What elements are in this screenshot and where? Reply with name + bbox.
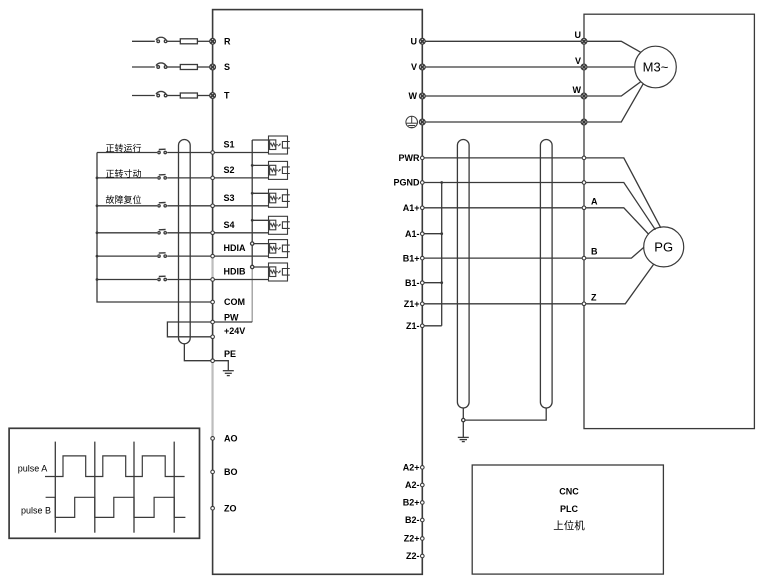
svg-text:Z2-: Z2- [406, 551, 420, 561]
svg-text:上位机: 上位机 [553, 519, 585, 532]
terminal PE motor [581, 119, 587, 125]
node opto supply bus [251, 140, 253, 267]
svg-text:U: U [411, 37, 418, 47]
svg-text:W: W [573, 85, 582, 95]
wire PGND to encoder [584, 183, 655, 230]
shielded cable capsule 1 [457, 140, 469, 409]
wire A to encoder [584, 208, 648, 234]
terminal B1+ [421, 256, 425, 260]
wire Z1+ inverter-encoder [422, 303, 584, 305]
wire opto bus to PW (grey) [251, 267, 253, 322]
wire S3 switch-terminal [167, 205, 212, 207]
PE symbol at inverter output [406, 116, 418, 128]
junction opto bus HDIB [251, 265, 254, 268]
junction bus-HDIB [96, 278, 99, 281]
wire pulse B waveform [46, 497, 186, 517]
CNC host box [472, 465, 663, 574]
ground PE [223, 370, 234, 372]
junction tie PGND [440, 181, 443, 184]
pulse waveform box [9, 428, 199, 538]
terminal W [419, 93, 425, 99]
optocoupler HDIB [269, 263, 290, 281]
svg-text:S: S [224, 62, 230, 72]
wire S breaker-fuse [167, 66, 180, 68]
wire S2 switch-terminal [167, 177, 212, 179]
terminal ZO [211, 506, 215, 510]
svg-text:B1+: B1+ [403, 253, 420, 263]
svg-text:pulse A: pulse A [18, 463, 48, 473]
svg-text:正转寸动: 正转寸动 [106, 168, 142, 179]
wire T breaker-fuse [167, 95, 180, 97]
wire T fuse-terminal [197, 95, 212, 97]
svg-text:B1-: B1- [405, 278, 420, 288]
wire S2 bus-switch [97, 177, 157, 179]
svg-text:B2+: B2+ [403, 498, 420, 508]
svg-text:A: A [591, 196, 598, 206]
wire S1 into opto [213, 152, 269, 154]
fuse R [180, 39, 197, 44]
terminal PGND encoder [582, 181, 586, 185]
wire B to encoder [584, 247, 644, 258]
junction opto bus S2 [251, 164, 254, 167]
junction opto bus S3 [251, 192, 254, 195]
svg-text:BO: BO [224, 467, 238, 477]
terminal HDIA [211, 254, 215, 258]
wire opto HDIA anode feed [252, 243, 268, 245]
svg-text:HDIA: HDIA [224, 243, 246, 253]
svg-text:+24V: +24V [224, 326, 245, 336]
svg-text:S1: S1 [224, 140, 235, 150]
wire Z to encoder [584, 265, 654, 304]
terminal A2+ [421, 466, 425, 470]
svg-text:B2-: B2- [405, 515, 420, 525]
shielded cable capsule 2 [540, 140, 552, 408]
node pulse grid 4 [173, 442, 175, 533]
svg-text:W: W [409, 91, 418, 101]
switch S1 contact [158, 151, 160, 153]
svg-text:AO: AO [224, 434, 238, 444]
wire A1- stub [422, 233, 441, 235]
wire S3 bus-switch [97, 205, 157, 207]
svg-text:PW: PW [224, 313, 239, 323]
shielded cable left capsule [179, 140, 191, 344]
wire opto S1 anode feed [252, 139, 268, 141]
optocoupler S1 [269, 136, 290, 154]
terminal B1- [421, 281, 425, 285]
wire V to motor [584, 66, 635, 68]
terminal V [419, 64, 425, 70]
svg-text:故障复位: 故障复位 [106, 194, 142, 205]
breaker T [157, 94, 160, 97]
wire capsule2 shield to ground [463, 408, 546, 420]
wire W to motor [584, 82, 641, 96]
terminal B2- [421, 518, 425, 522]
svg-text:S2: S2 [224, 165, 235, 175]
svg-text:T: T [224, 91, 230, 101]
encoder PG [644, 227, 684, 267]
svg-text:PGND: PGND [393, 178, 420, 188]
svg-text:A1-: A1- [405, 229, 420, 239]
wire opto HDIB anode feed [252, 266, 268, 268]
terminal B1+ encoder [582, 256, 586, 260]
terminal +24V [211, 335, 215, 339]
terminal AO [211, 437, 215, 441]
wire S1 switch-terminal [167, 152, 212, 154]
switch HDIA contact [158, 255, 160, 257]
svg-text:V: V [575, 56, 581, 66]
terminal BO [211, 470, 215, 474]
svg-text:PG: PG [654, 239, 673, 254]
terminal S2 [211, 176, 215, 180]
optocoupler S2 [269, 161, 290, 179]
optocoupler HDIA [269, 240, 290, 258]
switch S2 contact [158, 177, 160, 179]
motor M3~ [635, 46, 677, 88]
svg-text:Z: Z [591, 292, 597, 302]
terminal T [210, 93, 216, 99]
svg-text:B: B [591, 247, 598, 257]
svg-text:COM: COM [224, 297, 245, 307]
terminal A2- [421, 483, 425, 487]
svg-text:A2+: A2+ [403, 463, 420, 473]
terminal S3 [211, 204, 215, 208]
wire U to motor [584, 41, 641, 52]
wire HDIB bus-switch [97, 279, 157, 281]
wire B1- stub [422, 282, 441, 284]
terminal S [210, 64, 216, 70]
wire PE to motor [584, 84, 643, 122]
svg-text:A2-: A2- [405, 480, 420, 490]
wire T input lead [132, 95, 155, 97]
wire PWR to encoder [584, 158, 661, 228]
junction bus-S3 [96, 204, 99, 207]
wire S1 bus-switch [97, 152, 157, 154]
wire S4 bus-switch [97, 232, 157, 234]
terminal S1 [211, 151, 215, 155]
svg-text:Z1+: Z1+ [404, 299, 420, 309]
wire S4 switch-terminal [167, 232, 212, 234]
svg-text:V: V [411, 62, 417, 72]
terminal A1- [421, 232, 425, 236]
terminal PWR encoder [582, 156, 586, 160]
terminal HDIB [211, 278, 215, 282]
terminal R [210, 38, 216, 44]
terminal V motor [581, 64, 587, 70]
terminal PE output [419, 119, 425, 125]
wire HDIA switch-terminal [167, 255, 212, 257]
grey left-edge segment PE-AO [212, 363, 214, 436]
switch S4 contact [158, 232, 160, 234]
svg-text:CNC: CNC [559, 487, 579, 497]
terminal Z1+ [421, 302, 425, 306]
wire PWR inverter-encoder [422, 157, 584, 159]
wire S4 into opto [213, 232, 269, 234]
node pulse grid 3 [133, 442, 135, 533]
wire R fuse-terminal [197, 40, 212, 42]
wire S fuse-terminal [197, 66, 212, 68]
wire HDIA into opto [213, 255, 269, 257]
wire V inverter-motor [422, 66, 584, 68]
wire opto S2 anode feed [252, 164, 268, 166]
terminal Z2- [421, 554, 425, 558]
wire R breaker-fuse [167, 40, 180, 42]
wire PW to opto bus [213, 321, 253, 323]
wire A1+ inverter-encoder [422, 207, 584, 209]
fuse S [180, 65, 197, 70]
svg-text:HDIB: HDIB [224, 267, 246, 277]
optocoupler S4 [269, 216, 290, 234]
svg-text:S4: S4 [224, 220, 235, 230]
breaker S [157, 66, 160, 69]
junction bus-HDIA [96, 255, 99, 258]
wire HDIA bus-switch [97, 255, 157, 257]
terminal Z1- [421, 324, 425, 328]
terminal A1+ [421, 206, 425, 210]
terminal PE [211, 359, 215, 363]
svg-text:pulse B: pulse B [21, 506, 51, 516]
node left control bus [97, 153, 213, 303]
junction tie A1- [440, 232, 443, 235]
wire PGND tie bus [441, 183, 443, 326]
terminal S4 [211, 231, 215, 235]
svg-text:Z1-: Z1- [406, 321, 420, 331]
wire opto S3 anode feed [252, 192, 268, 194]
junction opto bus S4 [251, 219, 254, 222]
junction tie B1- [440, 281, 443, 284]
terminal Z1+ encoder [582, 302, 586, 306]
inverter main box [213, 10, 423, 575]
terminal W motor [581, 93, 587, 99]
wire PGND inverter-encoder [422, 182, 584, 184]
wire S3 into opto [213, 205, 269, 207]
junction bus-S2 [96, 177, 99, 180]
fuse T [180, 93, 197, 98]
svg-text:M3~: M3~ [643, 60, 669, 75]
breaker R [157, 40, 160, 43]
svg-text:Z2+: Z2+ [404, 534, 420, 544]
wire HDIB into opto [213, 279, 269, 281]
node pulse grid 1 [54, 442, 56, 533]
wire capsule1 shield to ground [462, 408, 464, 437]
terminal COM [211, 300, 215, 304]
motor enclosure box [584, 14, 754, 428]
junction bus-S4 [96, 231, 99, 234]
svg-text:S3: S3 [224, 193, 235, 203]
wire S input lead [132, 66, 155, 68]
wire S2 into opto [213, 177, 269, 179]
wire left shield to PE [184, 344, 212, 361]
wire PE to ground [213, 361, 229, 371]
wire opto S4 anode feed [252, 219, 268, 221]
wire B1+ inverter-encoder [422, 257, 584, 259]
junction shield [462, 418, 465, 421]
svg-text:PWR: PWR [399, 153, 420, 163]
terminal PWR [421, 156, 425, 160]
svg-text:PLC: PLC [560, 504, 579, 514]
node pulse grid 2 [94, 442, 96, 533]
svg-text:A1+: A1+ [403, 203, 420, 213]
svg-text:R: R [224, 37, 231, 47]
wire Z1- stub [422, 325, 441, 327]
svg-text:PE: PE [224, 349, 236, 359]
terminal U [419, 38, 425, 44]
ground shield [458, 436, 469, 438]
wire R input lead [132, 40, 155, 42]
wire HDIB switch-terminal [167, 279, 212, 281]
svg-text:ZO: ZO [224, 503, 237, 513]
switch HDIB contact [158, 278, 160, 280]
terminal PGND [421, 181, 425, 185]
wire pulse A waveform [45, 456, 185, 477]
wire U inverter-motor [422, 40, 584, 42]
wire PW jumper [167, 322, 212, 337]
terminal B2+ [421, 501, 425, 505]
wire W inverter-motor [422, 95, 584, 97]
optocoupler S3 [269, 189, 290, 207]
terminal U motor [581, 38, 587, 44]
svg-text:U: U [575, 30, 582, 40]
terminal PW [211, 320, 215, 324]
junction opto bus HDIA [251, 242, 254, 245]
wire PE inverter-motor [422, 121, 584, 123]
grey left-edge segment HDIA-HDIB [212, 258, 214, 277]
terminal Z2+ [421, 537, 425, 541]
switch S3 contact [158, 205, 160, 207]
terminal A1+ encoder [582, 206, 586, 210]
svg-text:正转运行: 正转运行 [106, 142, 142, 153]
